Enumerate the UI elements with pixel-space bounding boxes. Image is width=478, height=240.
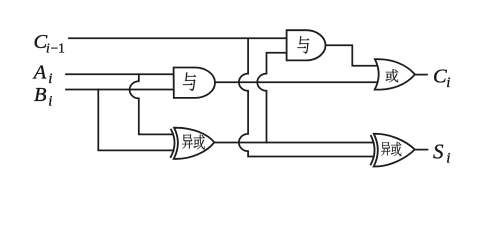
svg-text:i: i — [446, 75, 450, 91]
XOR gate U2 (Ai XOR Bi) — [170, 128, 214, 159]
svg-text:B: B — [34, 84, 47, 106]
wire Bi branch down to XOR1 lower input — [98, 90, 173, 151]
AND gate U3 (Ci-1 AND (A XOR B)) — [287, 30, 326, 60]
OR gate U4 (carry out Ci) — [375, 59, 415, 89]
output label Si — [433, 140, 450, 167]
wire AND1 output to OR lower input — [215, 81, 379, 83]
wire OR output to Ci — [415, 74, 427, 76]
input label Ci-1 — [34, 31, 65, 56]
wire carry-in Ci-1 horizontal — [69, 37, 287, 39]
wire XOR1 output to XOR2 upper input — [214, 142, 373, 144]
input label Bi — [34, 84, 52, 109]
input label Ai — [32, 61, 53, 87]
svg-text:i: i — [48, 71, 52, 87]
wire XOR2 output to Si — [415, 149, 428, 151]
svg-text:S: S — [433, 140, 444, 164]
wire input Ai horizontal — [66, 73, 176, 75]
wire A-xor-B branch up with hop to AND2 lower input — [257, 53, 286, 143]
wire Ai branch down with hop over Bi to XOR1 upper input — [130, 74, 173, 134]
AND gate U1 (Ai AND Bi) — [174, 68, 215, 98]
svg-text:i: i — [46, 41, 50, 56]
wire AND2 output elbow to OR upper input — [326, 45, 379, 65]
wire Ci-1 branch down with hops to XOR2 lower input — [239, 38, 374, 156]
svg-text:i: i — [446, 151, 450, 167]
svg-text:A: A — [32, 61, 47, 83]
XOR gate U5 (sum Si) — [370, 134, 414, 167]
svg-text:C: C — [433, 66, 447, 88]
wire input Bi horizontal — [66, 89, 176, 91]
svg-text:i: i — [48, 94, 52, 110]
svg-text:−1: −1 — [51, 41, 65, 56]
output label Ci — [433, 66, 450, 92]
